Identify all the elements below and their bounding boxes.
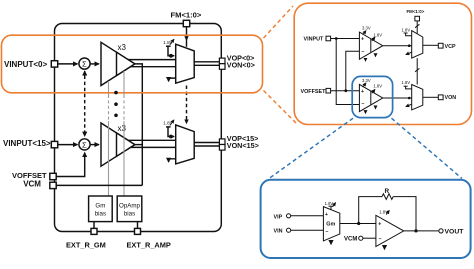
- svg-text:+: +: [361, 37, 364, 43]
- svg-text:+: +: [361, 89, 364, 95]
- svg-text:FM<1:0>: FM<1:0>: [407, 9, 425, 14]
- svg-text:VINPUT<15>: VINPUT<15>: [3, 139, 51, 148]
- svg-text:1.8V: 1.8V: [373, 32, 382, 37]
- svg-text:x3: x3: [118, 124, 127, 133]
- svg-text:VON<15>: VON<15>: [227, 141, 259, 150]
- svg-text:VINPUT<0>: VINPUT<0>: [4, 60, 47, 69]
- svg-text:−: −: [325, 229, 328, 235]
- svg-text:x3: x3: [118, 43, 127, 52]
- svg-text:VCP: VCP: [445, 44, 456, 50]
- svg-text:1.8V: 1.8V: [402, 80, 411, 85]
- svg-text:VCM: VCM: [23, 180, 41, 189]
- svg-text:OpAmp: OpAmp: [119, 203, 141, 210]
- svg-text:Gm: Gm: [326, 221, 335, 227]
- svg-text:EXT_R_GM: EXT_R_GM: [66, 240, 106, 249]
- svg-text:R: R: [385, 188, 390, 195]
- svg-text:VON: VON: [445, 95, 457, 101]
- svg-text:VON<0>: VON<0>: [227, 60, 255, 69]
- svg-text:VCM: VCM: [344, 237, 357, 243]
- svg-text:1.8V: 1.8V: [373, 84, 382, 89]
- svg-text:Σ: Σ: [82, 60, 87, 69]
- svg-text:3.3V: 3.3V: [362, 78, 371, 83]
- svg-text:VOFFSET: VOFFSET: [301, 89, 327, 95]
- svg-text:+: +: [378, 222, 381, 228]
- svg-text:Gm: Gm: [95, 203, 105, 210]
- svg-text:1.8V: 1.8V: [325, 201, 334, 206]
- svg-text:VINPUT: VINPUT: [304, 37, 324, 43]
- svg-text:FM<1:0>: FM<1:0>: [171, 11, 202, 20]
- svg-text:−: −: [361, 101, 364, 107]
- svg-text:VOUT: VOUT: [445, 228, 465, 235]
- svg-text:+: +: [325, 212, 328, 218]
- svg-text:3.3V: 3.3V: [362, 26, 371, 31]
- svg-text:1.8V: 1.8V: [379, 210, 388, 215]
- svg-text:bias: bias: [124, 211, 135, 218]
- svg-text:VIN: VIN: [274, 229, 283, 235]
- svg-text:bias: bias: [95, 211, 106, 218]
- svg-text:VIP: VIP: [274, 214, 283, 220]
- svg-text:1.8V: 1.8V: [402, 28, 411, 33]
- svg-text:−: −: [379, 236, 382, 242]
- svg-text:EXT_R_AMP: EXT_R_AMP: [127, 240, 171, 249]
- svg-text:−: −: [361, 49, 364, 55]
- svg-text:Σ: Σ: [82, 140, 87, 149]
